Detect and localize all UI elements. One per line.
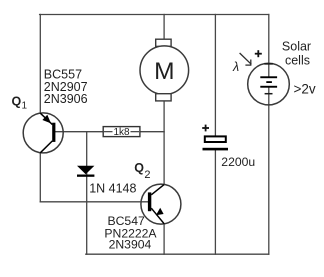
capacitor C1 2200u [203, 136, 229, 150]
svg-text:M: M [154, 58, 174, 85]
svg-text:λ: λ [232, 60, 239, 74]
wire Q1 collector down [39, 153, 41, 202]
battery short plate middle [266, 81, 272, 83]
svg-text:Q: Q [12, 95, 22, 109]
svg-text:2: 2 [144, 169, 150, 181]
wire top rail [40, 14, 269, 16]
wire capacitor top [214, 15, 216, 136]
transistor Q2 [141, 184, 181, 224]
wire node base of Q2 horizontal [40, 201, 148, 203]
motor M1 [140, 39, 189, 101]
wire diode branch vertical [86, 132, 88, 255]
wire Q1 emitter to top rail [39, 15, 41, 114]
solar cells B1 [248, 63, 290, 105]
svg-text:>2v: >2v [294, 81, 316, 96]
resistor R1 1k8 [103, 127, 140, 138]
wire motor bottom to Q2 collector [163, 101, 165, 185]
wire capacitor bottom [214, 150, 216, 254]
battery long plate top [260, 76, 277, 78]
svg-text:Q: Q [134, 161, 144, 175]
svg-text:1N 4148: 1N 4148 [89, 182, 136, 196]
wire Q2 emitter to bottom rail [163, 224, 165, 255]
plus sign of capacitor [202, 125, 209, 132]
transistor Q1 [23, 113, 63, 153]
svg-text:1k8: 1k8 [113, 127, 130, 138]
svg-text:2N3904: 2N3904 [109, 238, 152, 252]
wire motor top to rail [163, 15, 165, 40]
wire solar cell top [268, 15, 270, 78]
wire resistor to motor node [140, 131, 164, 133]
wire bottom rail [86, 253, 269, 255]
battery long plate bottom [260, 86, 277, 88]
wire solar cell bottom [268, 87, 270, 254]
wire Q1 base to resistor [55, 131, 103, 133]
plus sign of solar cells [255, 50, 262, 57]
diode D1 1N4148 [77, 166, 94, 177]
lambda light arrow [240, 53, 252, 65]
svg-text:1: 1 [22, 101, 28, 112]
svg-text:2200u: 2200u [221, 155, 255, 169]
battery short tick top [264, 63, 273, 65]
battery short tick bottom [265, 93, 273, 95]
svg-text:2N3906: 2N3906 [44, 92, 88, 106]
svg-text:Solar: Solar [282, 39, 311, 53]
svg-text:cells: cells [285, 53, 310, 67]
